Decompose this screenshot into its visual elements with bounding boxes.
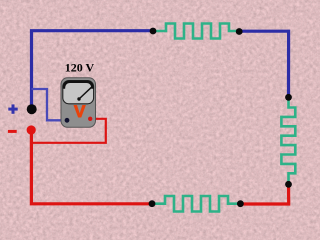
node E (R3 right) bbox=[237, 200, 244, 207]
node B (R1 right) bbox=[236, 28, 243, 35]
wire bottom-left red: from R3 left and up to minus terminal bbox=[31, 130, 152, 204]
label minus sign bbox=[8, 130, 17, 133]
resistor R1 (top) bbox=[153, 24, 239, 39]
voltmeter right terminal bbox=[88, 117, 92, 121]
wire voltmeter blue lead from plus node bbox=[32, 89, 67, 120]
node C (R2 top) bbox=[285, 94, 292, 101]
label plus sign bbox=[8, 104, 17, 113]
node: plus terminal dot bbox=[27, 104, 37, 114]
node D (R2 bottom) bbox=[285, 181, 292, 188]
voltmeter needle bbox=[77, 87, 91, 100]
resistor R2 (right, vertical) bbox=[281, 97, 295, 184]
wire top blue: left vertical and top horizontal bbox=[32, 31, 154, 109]
voltmeter left terminal bbox=[65, 118, 70, 123]
node F (R3 left) bbox=[149, 200, 156, 207]
wire top-right blue: horizontal to corner and down to resistor R2 bbox=[239, 31, 289, 97]
node: minus terminal dot (red) bbox=[27, 125, 36, 134]
wire voltmeter red lead loop to minus wire bbox=[31, 119, 105, 143]
resistor R3 (bottom) bbox=[152, 196, 240, 212]
node A (R1 left) bbox=[150, 28, 157, 35]
wire bottom-right red: from R2 down and left to R3 bbox=[240, 184, 288, 204]
voltmeter M1 body bbox=[61, 78, 96, 128]
svg-text:V: V bbox=[74, 102, 86, 121]
svg-text:120 V: 120 V bbox=[65, 61, 95, 75]
